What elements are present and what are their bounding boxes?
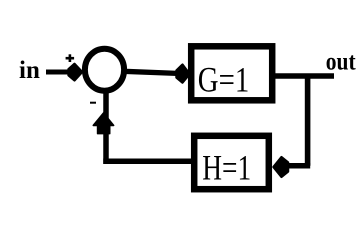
wire feedback tap vertical	[305, 74, 311, 166]
arrowhead up into summing junction	[93, 113, 113, 134]
block G1	[191, 46, 272, 100]
wire feedback horizontal into H block	[286, 163, 310, 169]
wire input	[46, 70, 74, 75]
arrowhead into H block	[274, 157, 289, 177]
svg-text:in: in	[19, 57, 40, 84]
arrowhead into summing junction	[69, 64, 82, 80]
block H1	[194, 136, 269, 189]
summing junction U1	[85, 49, 124, 91]
minus sign at summing junction	[90, 102, 96, 104]
svg-text:out: out	[326, 48, 356, 76]
wire G block to output	[274, 73, 334, 79]
wire feedback vertical up to summing junction	[103, 93, 109, 164]
arrowhead into G block	[177, 65, 190, 83]
plus sign at summing junction	[66, 54, 75, 62]
svg-text:G=1: G=1	[198, 60, 249, 100]
wire H block output to feedback corner	[103, 158, 194, 164]
wire summing junction to G block	[123, 71, 180, 73]
svg-text:H=1: H=1	[202, 148, 251, 187]
